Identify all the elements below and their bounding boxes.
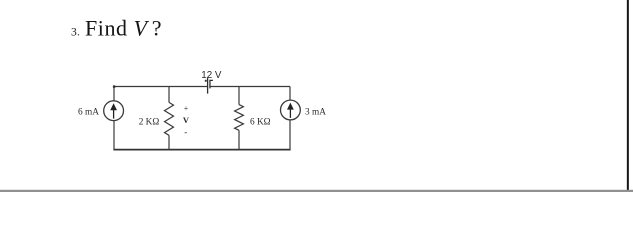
svg-text:-: - [184, 127, 187, 137]
battery V1 12V: long plate [207, 78, 209, 94]
wire: 6K branch lower segment [238, 130, 240, 149]
resistor R2 6 KOhm zigzag [235, 105, 244, 131]
node: top-left corner junction dot [113, 85, 115, 87]
svg-text:V: V [183, 115, 190, 125]
table cell right border [627, 0, 629, 192]
wire: right branch upper segment [289, 87, 291, 101]
svg-text:6 mA: 6 mA [78, 107, 99, 117]
svg-text:?: ? [152, 15, 162, 40]
table cell bottom border (grey rule) [0, 190, 633, 192]
battery V1 12V: short plate with top tick [210, 80, 213, 88]
battery V1 plus dot [205, 80, 207, 82]
resistor R1 2 KOhm zigzag [165, 102, 174, 135]
wire: 6K branch upper segment [238, 87, 240, 105]
wire: 2K branch lower segment [168, 135, 170, 149]
svg-text:6 KΩ: 6 KΩ [250, 117, 271, 127]
current source I2 arrow [287, 103, 294, 118]
current source I2 (3 mA) circle [281, 100, 301, 120]
wire: 2K branch upper segment [168, 87, 170, 103]
svg-text:Find V: Find V [85, 15, 150, 40]
polarity label + V - [183, 104, 190, 137]
svg-text:2 KΩ: 2 KΩ [139, 118, 160, 128]
current source I1 arrow [110, 103, 117, 118]
svg-text:12 V: 12 V [201, 70, 222, 81]
svg-text:3 mA: 3 mA [305, 107, 326, 117]
wire: bottom wire [113, 149, 290, 151]
current source I1 (6 mA) circle [104, 101, 124, 121]
wire: top wire left segment (top-left corner to battery) [114, 86, 208, 88]
wire: right branch lower segment [289, 120, 291, 150]
wire: left branch lower segment [113, 121, 115, 150]
wire: left branch upper segment [113, 87, 115, 101]
svg-text:+: + [184, 104, 189, 113]
svg-text:3.: 3. [71, 26, 80, 38]
wire: top wire right segment (battery to top-right corner) [210, 86, 290, 88]
